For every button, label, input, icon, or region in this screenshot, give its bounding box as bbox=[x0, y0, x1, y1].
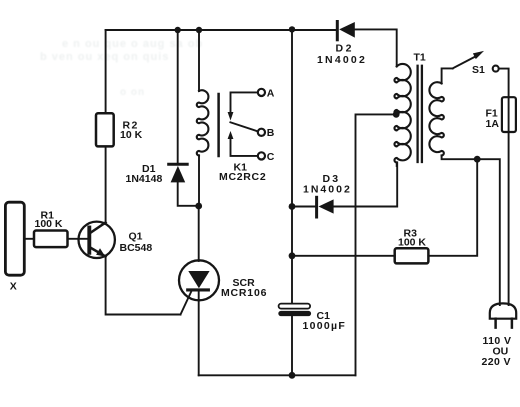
transformer T1 secondary winding bbox=[429, 82, 443, 155]
svg-text:T1: T1 bbox=[414, 52, 426, 64]
label D3 bbox=[303, 173, 352, 195]
wire secondary bottom to plug bbox=[442, 155, 500, 305]
resistor R3 bbox=[292, 255, 395, 257]
wire primary bottom stub bbox=[396, 162, 398, 166]
svg-text:C: C bbox=[267, 151, 275, 163]
wire coil bottom to junction bbox=[198, 155, 200, 206]
fuse F1 bbox=[502, 97, 516, 132]
svg-text:1N4002: 1N4002 bbox=[317, 54, 367, 66]
label S1 bbox=[472, 64, 485, 76]
wire X to R1 bbox=[24, 238, 34, 240]
wire switch terminal to fuse bbox=[499, 69, 508, 98]
wire D1 branch from top rail bbox=[177, 30, 179, 163]
mains plug bbox=[490, 303, 516, 318]
capacitor C1 bbox=[279, 304, 311, 309]
label C1 bbox=[303, 310, 347, 332]
node dot top rail / coil bbox=[196, 27, 202, 33]
wire R1 to Q1 base bbox=[68, 238, 90, 240]
switch terminal circle bbox=[493, 66, 499, 72]
SCR MCR106 bbox=[179, 260, 219, 300]
label mains voltage bbox=[482, 335, 512, 368]
relay coil K1 bbox=[198, 30, 200, 91]
relay contact A bbox=[231, 92, 258, 112]
label R3 bbox=[398, 228, 426, 249]
svg-text:10 K: 10 K bbox=[120, 129, 143, 141]
transformer T1 primary winding bbox=[394, 64, 410, 162]
Q1 emitter arrow bbox=[96, 248, 105, 256]
labels A B C bbox=[267, 87, 275, 163]
wire Q1 emitter to SCR gate horizontal bbox=[106, 257, 181, 315]
node dot D1/coil/SCR junction bbox=[195, 203, 202, 210]
wire middle branch from top rail down bbox=[291, 29, 293, 303]
label X bbox=[10, 281, 17, 293]
label R2 value bbox=[120, 120, 143, 141]
svg-text:e n ou que o aug sa ob: e n ou que o aug sa ob bbox=[62, 38, 203, 50]
svg-text:B: B bbox=[267, 127, 275, 139]
svg-text:1N4002: 1N4002 bbox=[303, 184, 352, 196]
wire secondary top to switch bbox=[442, 68, 453, 83]
svg-text:MCR106: MCR106 bbox=[221, 287, 267, 299]
transformer core bbox=[416, 66, 418, 162]
diode D2 bbox=[336, 22, 339, 40]
label K1 bbox=[219, 162, 266, 183]
svg-text:1N4148: 1N4148 bbox=[126, 173, 163, 185]
node dot secondary bottom / R3 bbox=[474, 156, 481, 163]
label SCR bbox=[221, 277, 267, 299]
node dot top rail / D1 bbox=[175, 27, 181, 33]
svg-text:BC548: BC548 bbox=[120, 242, 153, 254]
relay contact C bbox=[231, 139, 258, 156]
svg-text:o on: o on bbox=[120, 87, 145, 98]
svg-text:1A: 1A bbox=[486, 118, 500, 130]
svg-text:100 K: 100 K bbox=[35, 218, 63, 230]
svg-text:D2: D2 bbox=[336, 43, 354, 55]
label D2 bbox=[317, 43, 367, 67]
svg-text:A: A bbox=[267, 87, 275, 99]
SCR anode wire bbox=[198, 206, 200, 261]
relay contact B blade bbox=[230, 122, 257, 131]
svg-text:S1: S1 bbox=[472, 64, 485, 76]
node dot R3 junction bbox=[289, 252, 296, 259]
wire C1 bottom bbox=[291, 316, 293, 375]
relay armature bar bbox=[217, 94, 220, 156]
node dot bottom rail bbox=[289, 372, 296, 379]
diode D1 bbox=[169, 163, 188, 166]
svg-text:Q1: Q1 bbox=[129, 231, 143, 243]
resistor R1 bbox=[34, 231, 68, 248]
wire bottom rail bbox=[199, 374, 356, 376]
svg-text:X: X bbox=[10, 281, 17, 293]
node dot top rail / middle branch bbox=[289, 26, 295, 32]
transistor Q1 bbox=[79, 222, 115, 258]
wire left branch top rail to R2 bbox=[105, 30, 107, 113]
SCR cathode wire bbox=[198, 292, 200, 376]
wire top rail right of D2 to transformer primary top bbox=[355, 29, 397, 66]
svg-text:220 V: 220 V bbox=[482, 356, 511, 368]
wire R2 to Q1 collector bbox=[105, 146, 107, 224]
svg-text:100 K: 100 K bbox=[398, 237, 426, 249]
node dot D3 junction bbox=[289, 203, 296, 210]
resistor R2 bbox=[96, 113, 114, 146]
svg-text:1000µF: 1000µF bbox=[303, 320, 347, 332]
label R1 value bbox=[35, 210, 63, 231]
wire R3 right to secondary bottom node bbox=[428, 159, 477, 256]
svg-text:MC2RC2: MC2RC2 bbox=[219, 171, 266, 183]
diode D3 bbox=[292, 206, 315, 208]
node dot center tap bbox=[393, 111, 400, 118]
label Q1 bbox=[120, 231, 153, 254]
wire SCR gate diagonal bbox=[181, 291, 192, 315]
wire D3 to primary bottom bbox=[334, 162, 398, 206]
electrode X bbox=[5, 202, 24, 275]
label F1 bbox=[486, 107, 500, 130]
label T1 bbox=[414, 52, 426, 64]
wire center tap to bottom rail bbox=[356, 114, 397, 375]
coil loops bbox=[197, 90, 209, 155]
wire D1 to junction bbox=[178, 182, 199, 205]
switch S1 blade bbox=[453, 56, 476, 68]
label D1 bbox=[126, 163, 163, 185]
wire fuse to plug bbox=[508, 132, 510, 305]
wire top rail left bbox=[106, 29, 336, 31]
